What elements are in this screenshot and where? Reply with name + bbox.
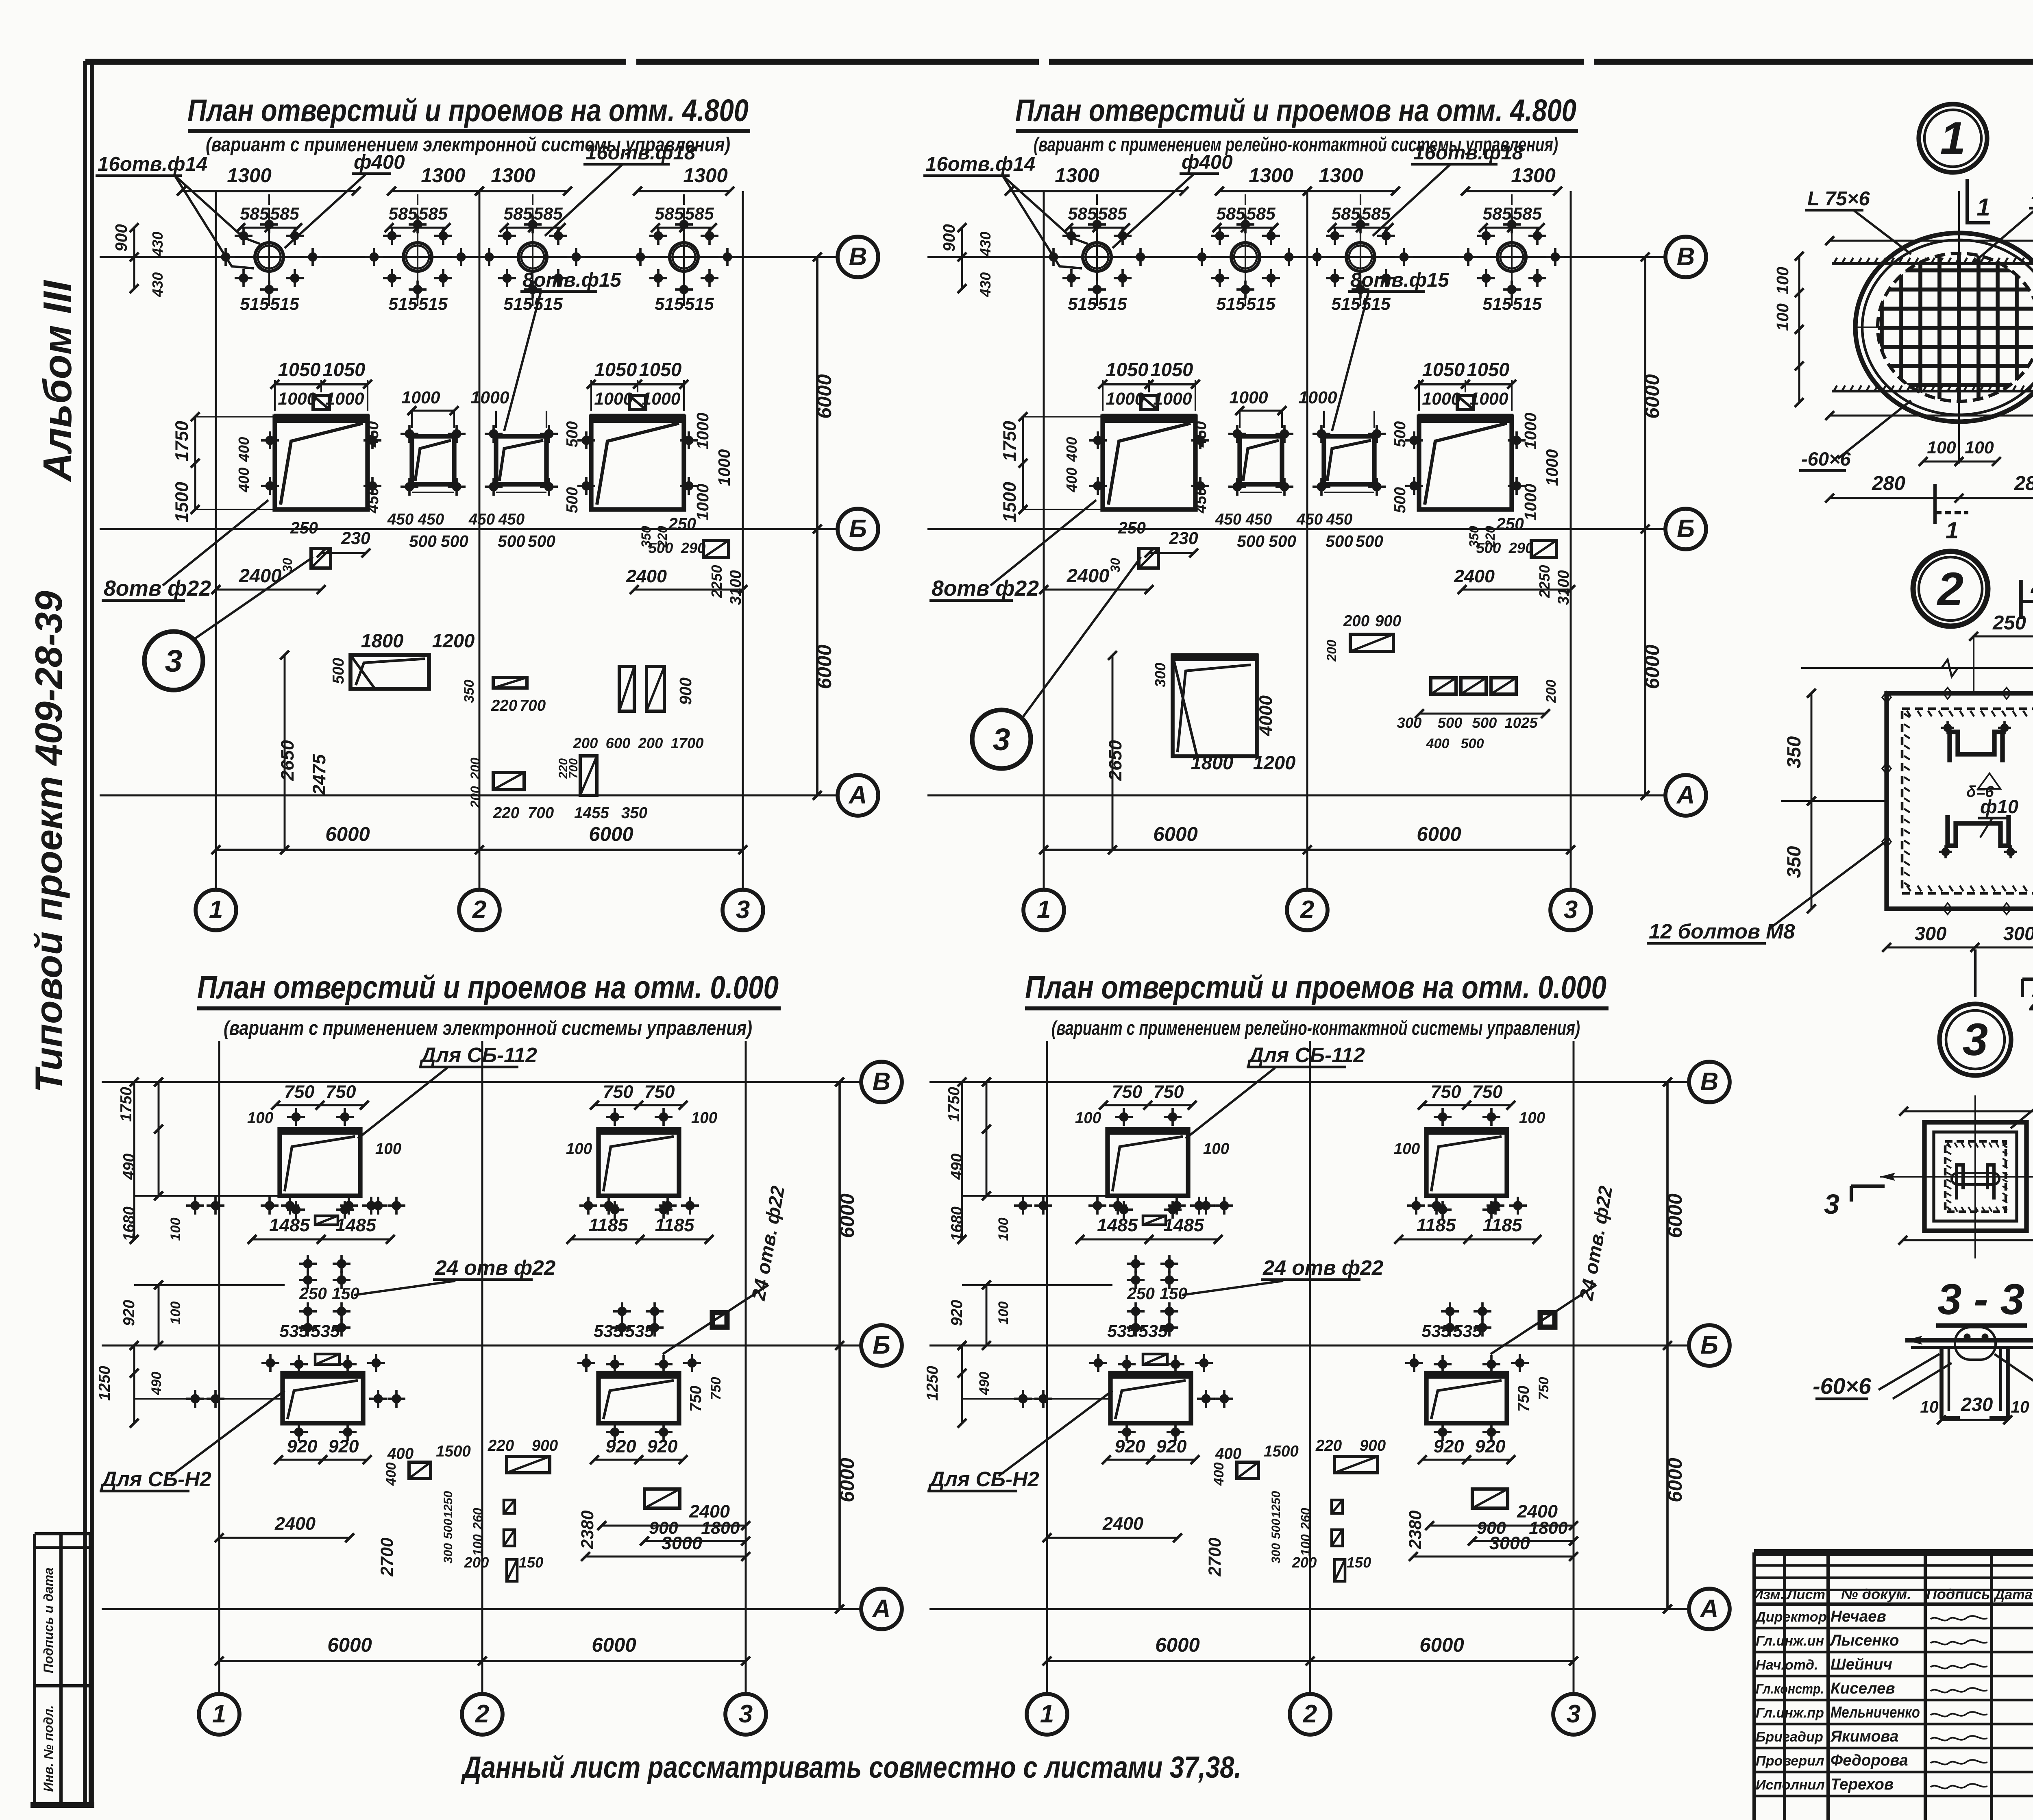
svg-text:535: 535 (594, 1321, 623, 1341)
svg-text:30: 30 (1108, 558, 1123, 573)
svg-text:350: 350 (621, 804, 648, 822)
svg-text:Подпись и дата: Подпись и дата (41, 1567, 56, 1673)
svg-text:535: 535 (1453, 1321, 1482, 1341)
svg-text:450: 450 (364, 421, 382, 448)
svg-text:1300: 1300 (1055, 164, 1099, 187)
svg-text:1300: 1300 (421, 164, 466, 187)
svg-text:600: 600 (606, 735, 631, 751)
svg-text:500: 500 (498, 532, 525, 551)
svg-text:100: 100 (996, 1217, 1011, 1241)
svg-text:3100: 3100 (727, 570, 744, 605)
svg-text:100: 100 (1519, 1109, 1545, 1127)
svg-text:1000: 1000 (1521, 412, 1540, 449)
svg-text:6000: 6000 (813, 644, 836, 689)
svg-text:1185: 1185 (1483, 1215, 1523, 1235)
svg-text:2: 2 (1303, 1700, 1317, 1728)
svg-text:3: 3 (1567, 1700, 1581, 1728)
svg-text:1800: 1800 (1529, 1518, 1567, 1538)
svg-text:1250: 1250 (1269, 1491, 1283, 1518)
svg-text:2: 2 (1937, 563, 1963, 615)
svg-text:100: 100 (470, 1534, 485, 1556)
svg-text:900: 900 (112, 224, 131, 252)
svg-text:3: 3 (736, 896, 750, 924)
svg-text:515: 515 (388, 294, 418, 314)
svg-text:12 болтов М8: 12 болтов М8 (1649, 920, 1795, 943)
svg-text:500: 500 (528, 532, 555, 551)
svg-text:515: 515 (655, 294, 684, 314)
svg-text:3: 3 (1564, 896, 1578, 924)
svg-text:1455: 1455 (574, 804, 609, 822)
svg-text:1000: 1000 (693, 412, 712, 449)
svg-text:План отверстий и проемов на от: План отверстий и проемов на отм. 4.800 (187, 93, 749, 128)
svg-text:1300: 1300 (491, 164, 535, 187)
svg-text:6000: 6000 (1419, 1634, 1464, 1656)
svg-text:200: 200 (1343, 612, 1370, 630)
svg-text:500: 500 (442, 1519, 455, 1539)
svg-text:100: 100 (1394, 1140, 1420, 1158)
svg-text:6000: 6000 (327, 1634, 372, 1656)
svg-text:535: 535 (1421, 1321, 1451, 1341)
svg-text:1185: 1185 (1417, 1215, 1456, 1235)
svg-text:450: 450 (387, 511, 414, 528)
svg-text:920: 920 (647, 1436, 678, 1456)
svg-text:250: 250 (290, 518, 318, 537)
svg-text:585: 585 (655, 204, 684, 224)
svg-text:490: 490 (948, 1153, 966, 1180)
svg-text:(вариант с применением релейно: (вариант с применением релейно-контактно… (1051, 1017, 1580, 1039)
svg-text:290: 290 (1508, 540, 1534, 556)
svg-text:Б: Б (873, 1331, 890, 1359)
svg-text:750: 750 (1515, 1385, 1532, 1412)
svg-text:500: 500 (1391, 421, 1409, 447)
svg-text:1050: 1050 (278, 359, 321, 380)
svg-text:430: 430 (149, 272, 166, 298)
svg-text:6000: 6000 (836, 1193, 858, 1238)
svg-text:300: 300 (2003, 923, 2033, 944)
svg-text:1000: 1000 (401, 388, 440, 407)
svg-text:300: 300 (1397, 714, 1422, 731)
svg-text:1500: 1500 (999, 482, 1020, 522)
svg-text:585: 585 (1246, 204, 1276, 224)
svg-text:Директор: Директор (1754, 1609, 1827, 1625)
svg-text:L 75×6: L 75×6 (1807, 187, 1870, 210)
svg-text:585: 585 (240, 204, 270, 224)
svg-text:Проверил: Проверил (1756, 1753, 1824, 1769)
svg-text:100: 100 (691, 1109, 718, 1127)
svg-text:6000: 6000 (813, 374, 836, 419)
svg-text:100: 100 (996, 1301, 1011, 1324)
svg-text:2380: 2380 (578, 1510, 597, 1549)
svg-text:535: 535 (625, 1321, 655, 1341)
svg-text:585: 585 (270, 204, 300, 224)
svg-text:100: 100 (1927, 438, 1956, 457)
svg-text:750: 750 (603, 1081, 633, 1102)
svg-text:Якимова: Якимова (1830, 1728, 1898, 1745)
svg-text:515: 515 (1068, 294, 1097, 314)
svg-text:750: 750 (1472, 1081, 1503, 1102)
svg-text:3100: 3100 (1555, 570, 1572, 605)
svg-text:230: 230 (341, 529, 370, 548)
svg-text:2: 2 (2030, 568, 2033, 599)
svg-text:(вариант с применением электро: (вариант с применением электронной систе… (224, 1017, 752, 1039)
svg-text:400: 400 (1426, 736, 1449, 751)
svg-text:1250: 1250 (924, 1366, 941, 1401)
svg-text:1485: 1485 (269, 1215, 310, 1235)
svg-text:250: 250 (668, 514, 696, 533)
svg-text:400: 400 (1063, 437, 1080, 462)
svg-text:Для СБ-112: Для СБ-112 (1247, 1043, 1365, 1067)
svg-text:1000: 1000 (325, 389, 364, 409)
svg-text:750: 750 (1431, 1081, 1461, 1102)
svg-text:535: 535 (1107, 1321, 1137, 1341)
svg-text:350: 350 (1783, 736, 1804, 768)
svg-text:585: 585 (1216, 204, 1246, 224)
svg-text:2: 2 (472, 896, 487, 924)
svg-text:350: 350 (1783, 846, 1804, 878)
svg-text:100: 100 (1075, 1109, 1101, 1127)
svg-text:100: 100 (1773, 267, 1792, 294)
svg-text:450: 450 (1215, 511, 1242, 528)
svg-text:500: 500 (1237, 532, 1265, 551)
svg-text:200: 200 (1543, 679, 1559, 703)
svg-text:Альбом III: Альбом III (35, 279, 80, 483)
svg-text:100: 100 (1298, 1534, 1313, 1556)
svg-text:920: 920 (1434, 1436, 1464, 1456)
svg-text:А: А (1700, 1595, 1719, 1623)
svg-text:500: 500 (1461, 736, 1484, 751)
svg-text:300: 300 (1152, 663, 1169, 688)
svg-text:290: 290 (681, 540, 706, 556)
svg-text:2: 2 (1300, 896, 1315, 924)
svg-text:1: 1 (1976, 194, 1990, 221)
svg-text:1800: 1800 (361, 630, 404, 651)
svg-text:450: 450 (1192, 487, 1210, 514)
svg-text:900: 900 (532, 1437, 558, 1454)
svg-text:2700: 2700 (1205, 1537, 1225, 1576)
svg-text:1750: 1750 (171, 421, 192, 462)
svg-text:Лист: Лист (1786, 1587, 1825, 1602)
svg-text:Дата: Дата (1993, 1587, 2032, 1602)
svg-text:1200: 1200 (1253, 752, 1296, 773)
svg-text:500: 500 (409, 532, 437, 551)
svg-text:1800: 1800 (701, 1518, 740, 1538)
svg-text:900: 900 (676, 677, 695, 705)
svg-text:200: 200 (573, 735, 598, 751)
svg-text:3: 3 (739, 1700, 753, 1728)
svg-text:1050: 1050 (639, 359, 682, 380)
svg-text:3: 3 (993, 722, 1010, 757)
svg-text:920: 920 (1475, 1436, 1506, 1456)
svg-text:920: 920 (287, 1436, 318, 1456)
svg-text:585: 585 (533, 204, 563, 224)
svg-text:535: 535 (279, 1321, 309, 1341)
svg-text:-60×6: -60×6 (1801, 448, 1851, 470)
svg-text:2250: 2250 (708, 565, 725, 599)
svg-text:490: 490 (120, 1153, 138, 1180)
svg-text:900: 900 (1375, 612, 1402, 630)
svg-text:100: 100 (566, 1140, 592, 1158)
svg-text:920: 920 (948, 1300, 966, 1326)
svg-text:30: 30 (280, 558, 295, 573)
svg-text:1050: 1050 (323, 359, 366, 380)
svg-text:500: 500 (1391, 487, 1409, 513)
svg-text:500: 500 (1476, 540, 1501, 556)
svg-text:1000: 1000 (1469, 389, 1508, 409)
svg-text:300: 300 (1915, 923, 1947, 944)
svg-text:3 - 3: 3 - 3 (1937, 1275, 2024, 1324)
svg-text:8отв ф22: 8отв ф22 (104, 577, 211, 601)
svg-text:2400: 2400 (274, 1513, 316, 1534)
svg-text:Нечаев: Нечаев (1831, 1608, 1886, 1625)
svg-text:Исполнил: Исполнил (1756, 1777, 1825, 1793)
svg-text:585: 585 (1513, 204, 1542, 224)
svg-text:500: 500 (1269, 1519, 1283, 1539)
svg-text:1750: 1750 (999, 421, 1020, 462)
svg-text:220: 220 (488, 1437, 514, 1454)
svg-text:В: В (873, 1068, 891, 1096)
svg-text:1050: 1050 (1151, 359, 1193, 380)
svg-text:750: 750 (1154, 1081, 1184, 1102)
svg-text:6000: 6000 (589, 823, 633, 845)
svg-text:450: 450 (364, 487, 382, 514)
svg-text:1680: 1680 (948, 1206, 966, 1241)
svg-text:150: 150 (519, 1554, 544, 1571)
svg-text:585: 585 (685, 204, 714, 224)
svg-text:1485: 1485 (1097, 1215, 1138, 1235)
svg-text:230: 230 (1961, 1393, 1993, 1415)
svg-text:Б: Б (849, 515, 867, 543)
svg-text:750: 750 (687, 1385, 705, 1412)
svg-text:750: 750 (326, 1081, 356, 1102)
svg-text:500: 500 (1326, 532, 1353, 551)
svg-text:400: 400 (1063, 468, 1080, 493)
svg-text:250: 250 (1127, 1284, 1155, 1303)
svg-text:ф400: ф400 (354, 151, 405, 173)
svg-text:8отв.ф15: 8отв.ф15 (1350, 269, 1450, 291)
svg-text:1485: 1485 (1163, 1215, 1204, 1235)
svg-text:500: 500 (441, 532, 468, 551)
svg-text:План отверстий и проемов на от: План отверстий и проемов на отм. 0.000 (197, 969, 779, 1005)
svg-text:200: 200 (468, 786, 483, 808)
svg-text:450: 450 (418, 511, 444, 528)
svg-text:585: 585 (503, 204, 533, 224)
svg-text:1300: 1300 (1249, 164, 1293, 187)
svg-text:6000: 6000 (325, 823, 370, 845)
svg-text:1050: 1050 (594, 359, 637, 380)
svg-text:1000: 1000 (470, 388, 509, 407)
svg-text:2400: 2400 (626, 566, 667, 586)
svg-text:1000: 1000 (1106, 389, 1144, 409)
svg-text:920: 920 (329, 1436, 359, 1456)
svg-text:300: 300 (442, 1543, 455, 1563)
svg-text:ф10: ф10 (1980, 796, 2018, 817)
svg-text:515: 515 (1216, 294, 1246, 314)
svg-text:515: 515 (418, 294, 448, 314)
svg-text:Изм.: Изм. (1753, 1587, 1784, 1602)
svg-text:2400: 2400 (1067, 565, 1110, 586)
svg-text:150: 150 (332, 1284, 359, 1303)
svg-text:490: 490 (977, 1372, 992, 1395)
svg-text:В: В (1677, 243, 1695, 271)
svg-text:16отв.ф14: 16отв.ф14 (98, 153, 207, 175)
svg-text:6000: 6000 (592, 1634, 636, 1656)
svg-text:16отв.ф18: 16отв.ф18 (1413, 142, 1524, 164)
svg-text:6000: 6000 (1153, 823, 1198, 845)
svg-text:515: 515 (1513, 294, 1542, 314)
svg-text:8отв ф22: 8отв ф22 (932, 577, 1039, 601)
svg-text:900: 900 (940, 224, 958, 252)
svg-text:2650: 2650 (277, 740, 298, 781)
svg-text:А: А (1676, 781, 1695, 809)
svg-text:Подпись: Подпись (1926, 1586, 1990, 1602)
svg-text:260: 260 (1298, 1508, 1313, 1530)
svg-text:Нач.отд.: Нач.отд. (1756, 1657, 1818, 1673)
svg-text:750: 750 (644, 1081, 675, 1102)
svg-text:450: 450 (1192, 421, 1210, 448)
svg-text:Киселев: Киселев (1831, 1680, 1895, 1697)
svg-text:6000: 6000 (1417, 823, 1461, 845)
svg-text:700: 700 (528, 804, 554, 822)
svg-text:Типовой проект 409-28-39: Типовой проект 409-28-39 (27, 591, 70, 1093)
svg-text:150: 150 (1160, 1284, 1187, 1303)
svg-text:100: 100 (1203, 1140, 1230, 1158)
svg-text:10: 10 (2011, 1398, 2029, 1416)
svg-text:А: А (872, 1595, 891, 1623)
svg-text:700: 700 (567, 758, 580, 779)
svg-text:350: 350 (461, 679, 477, 703)
svg-text:500: 500 (1438, 714, 1463, 731)
svg-text:24 отв ф22: 24 отв ф22 (1262, 1256, 1384, 1279)
svg-text:920: 920 (120, 1300, 138, 1326)
svg-text:1: 1 (1040, 1700, 1054, 1728)
svg-text:515: 515 (1098, 294, 1128, 314)
svg-text:250: 250 (1992, 612, 2026, 634)
svg-text:900: 900 (1477, 1518, 1506, 1538)
svg-text:585: 585 (1098, 204, 1128, 224)
svg-text:500: 500 (564, 421, 581, 447)
svg-text:150: 150 (1347, 1554, 1371, 1571)
svg-text:1500: 1500 (436, 1443, 471, 1460)
svg-text:1000: 1000 (642, 389, 680, 409)
svg-text:100: 100 (168, 1217, 183, 1241)
svg-text:6000: 6000 (1664, 1193, 1686, 1238)
svg-text:1750: 1750 (118, 1087, 135, 1122)
svg-text:1185: 1185 (655, 1215, 695, 1235)
svg-text:515: 515 (270, 294, 300, 314)
svg-text:1000: 1000 (1229, 388, 1268, 407)
svg-text:6000: 6000 (1155, 1634, 1200, 1656)
svg-text:200: 200 (1324, 640, 1339, 662)
svg-text:Б: Б (1700, 1331, 1718, 1359)
svg-text:430: 430 (977, 232, 994, 257)
svg-text:2650: 2650 (1105, 740, 1125, 781)
svg-text:1025: 1025 (1505, 714, 1538, 731)
svg-text:1: 1 (212, 1700, 226, 1728)
svg-text:750: 750 (1112, 1081, 1143, 1102)
svg-text:Гл.инж.пр: Гл.инж.пр (1756, 1705, 1824, 1721)
svg-text:585: 585 (1068, 204, 1097, 224)
svg-text:№ докум.: № докум. (1841, 1586, 1911, 1602)
svg-text:450: 450 (498, 511, 525, 528)
svg-text:220: 220 (1315, 1437, 1342, 1454)
svg-text:220: 220 (491, 697, 518, 714)
svg-text:1: 1 (1940, 112, 1966, 163)
svg-text:1185: 1185 (589, 1215, 629, 1235)
svg-text:515: 515 (240, 294, 270, 314)
svg-text:920: 920 (606, 1436, 636, 1456)
svg-text:500: 500 (330, 657, 347, 684)
svg-text:3: 3 (165, 644, 183, 679)
svg-text:Для СБ-112: Для СБ-112 (419, 1043, 537, 1067)
svg-text:2: 2 (475, 1700, 490, 1728)
svg-text:План отверстий и проемов на от: План отверстий и проемов на отм. 4.800 (1015, 93, 1576, 128)
svg-text:16отв.ф14: 16отв.ф14 (925, 153, 1035, 175)
svg-text:1000: 1000 (594, 389, 633, 409)
svg-text:2400: 2400 (239, 565, 282, 586)
svg-text:230: 230 (1169, 529, 1198, 548)
svg-text:Лысенко: Лысенко (1829, 1632, 1899, 1649)
svg-text:Гл.констр.: Гл.констр. (1756, 1681, 1824, 1697)
svg-text:1800: 1800 (1191, 752, 1234, 773)
svg-text:2700: 2700 (377, 1537, 397, 1576)
svg-text:1200: 1200 (432, 630, 475, 651)
svg-text:-60×6: -60×6 (1813, 1374, 1872, 1399)
svg-text:-10×5: -10×5 (2031, 185, 2033, 208)
svg-text:400: 400 (235, 468, 252, 493)
svg-text:1000: 1000 (1298, 388, 1337, 407)
svg-text:585: 585 (1482, 204, 1512, 224)
svg-text:1700: 1700 (671, 735, 704, 751)
svg-text:1050: 1050 (1106, 359, 1149, 380)
svg-text:1300: 1300 (1319, 164, 1363, 187)
svg-text:1050: 1050 (1467, 359, 1510, 380)
svg-text:В: В (849, 243, 867, 271)
svg-text:6000: 6000 (836, 1458, 858, 1502)
svg-text:2: 2 (2029, 987, 2033, 1016)
svg-text:500: 500 (564, 487, 581, 513)
svg-text:1680: 1680 (120, 1206, 138, 1241)
svg-text:515: 515 (685, 294, 714, 314)
svg-text:515: 515 (1246, 294, 1276, 314)
svg-text:750: 750 (284, 1081, 315, 1102)
svg-text:515: 515 (1331, 294, 1361, 314)
svg-text:1300: 1300 (1511, 164, 1556, 187)
svg-text:4000: 4000 (1255, 695, 1276, 736)
svg-text:750: 750 (708, 1377, 724, 1400)
svg-text:1300: 1300 (683, 164, 728, 187)
svg-text:400: 400 (1215, 1445, 1242, 1463)
svg-text:2400: 2400 (1102, 1513, 1143, 1534)
svg-text:280: 280 (1872, 472, 1905, 494)
svg-text:750: 750 (1536, 1377, 1552, 1400)
svg-text:6000: 6000 (1641, 644, 1663, 689)
svg-text:900: 900 (1360, 1437, 1386, 1454)
svg-text:А: А (848, 781, 867, 809)
svg-text:450: 450 (1296, 511, 1323, 528)
svg-text:535: 535 (311, 1321, 340, 1341)
svg-text:16отв.ф18: 16отв.ф18 (586, 142, 696, 164)
svg-text:400: 400 (383, 1462, 399, 1486)
svg-text:515: 515 (503, 294, 533, 314)
svg-text:220: 220 (493, 804, 520, 822)
svg-text:1250: 1250 (442, 1491, 455, 1518)
svg-text:920: 920 (1156, 1436, 1187, 1456)
svg-text:Для СБ-Н2: Для СБ-Н2 (928, 1467, 1039, 1491)
svg-text:10: 10 (1920, 1398, 1939, 1416)
svg-text:2475: 2475 (309, 754, 329, 795)
svg-text:200: 200 (638, 735, 663, 751)
svg-text:585: 585 (388, 204, 418, 224)
